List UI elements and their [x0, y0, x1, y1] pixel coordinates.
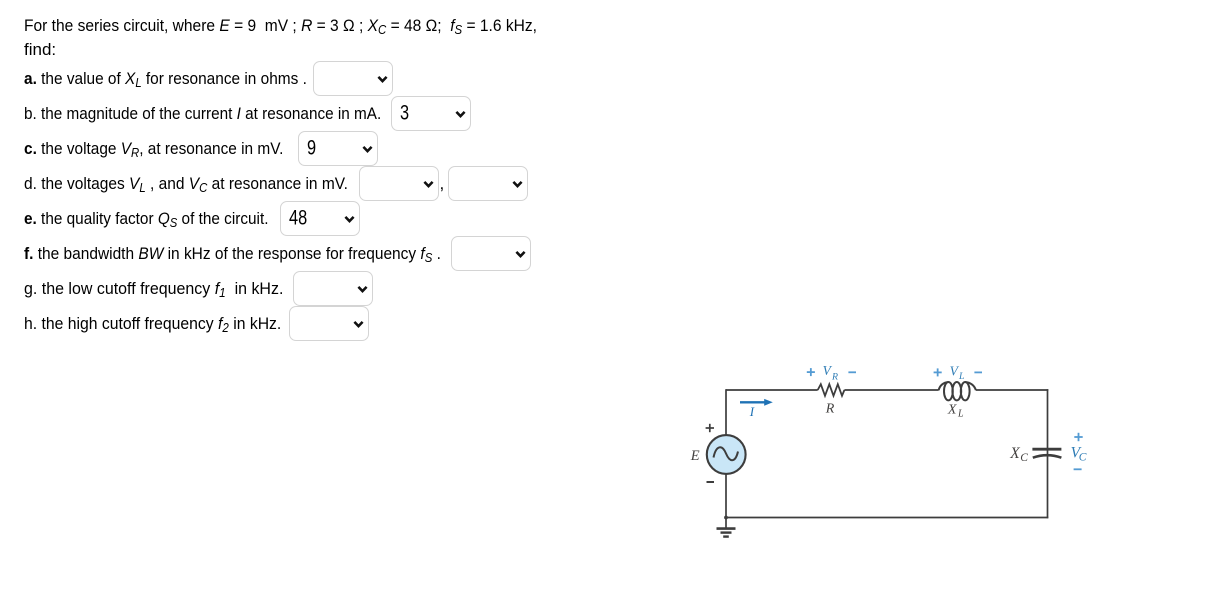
- item b text: [24, 104, 381, 124]
- svg-text:R: R: [825, 401, 835, 416]
- dropdown d2: [448, 166, 528, 201]
- current arrow I: [740, 399, 773, 406]
- dropdown e value 48: [280, 201, 360, 236]
- label + VL - above inductor: [934, 364, 982, 382]
- source plus sign: [706, 424, 714, 432]
- item c text: [24, 139, 283, 159]
- dropdown b value 3: [391, 96, 471, 131]
- wire top-left horizontal: [726, 389, 818, 391]
- item e text: [24, 209, 268, 229]
- item a text: [24, 69, 307, 89]
- wire right vertical upper: [1047, 389, 1049, 453]
- wire left vertical upper: [725, 389, 727, 435]
- svg-text:R: R: [831, 371, 838, 382]
- svg-text:L: L: [958, 371, 964, 382]
- problem statement line 2: [24, 40, 56, 60]
- label VC minus sign: [1074, 468, 1082, 470]
- wire bottom horizontal: [726, 517, 1048, 519]
- label XC left of capacitor: [1009, 445, 1028, 464]
- source minus sign: [707, 481, 715, 483]
- source E sine wave: [714, 447, 739, 460]
- resistor R zigzag: [818, 384, 845, 396]
- junction node dot: [724, 516, 728, 520]
- item f text: [24, 244, 441, 264]
- capacitor XC curved bottom plate: [1033, 455, 1062, 458]
- capacitor XC top plate: [1032, 448, 1061, 451]
- label VC plus sign: [1074, 433, 1082, 441]
- label E: [690, 448, 700, 464]
- dropdown c value 9: [298, 131, 378, 166]
- item d text: [24, 174, 348, 194]
- wire between inductor and right corner: [976, 389, 1048, 391]
- label I: [749, 404, 755, 419]
- svg-text:L: L: [957, 408, 964, 419]
- wire between resistor and inductor: [844, 389, 938, 391]
- ground symbol: [717, 518, 736, 537]
- svg-text:X: X: [1009, 445, 1020, 462]
- wire right vertical lower: [1047, 453, 1049, 518]
- svg-text:E: E: [690, 448, 700, 464]
- svg-text:X: X: [947, 403, 957, 418]
- label VC: [1071, 444, 1087, 463]
- inductor XL coil: [939, 382, 976, 400]
- label R below resistor: [825, 401, 835, 416]
- dropdown a: [313, 61, 393, 96]
- svg-text:I: I: [749, 404, 755, 419]
- item g text: [24, 279, 283, 299]
- dropdown h: [289, 306, 369, 341]
- dropdown f: [451, 236, 531, 271]
- item h text: [24, 314, 281, 334]
- comma between item d selects: [440, 174, 445, 194]
- svg-text:C: C: [1020, 452, 1028, 464]
- source E circle: [707, 435, 746, 474]
- dropdown d1: [359, 166, 439, 201]
- svg-text:C: C: [1079, 451, 1087, 463]
- dropdown g: [293, 271, 373, 306]
- problem statement line 1: [24, 16, 537, 36]
- label + VR - above resistor: [807, 363, 856, 382]
- label XL below inductor: [947, 403, 964, 420]
- wire left vertical lower: [725, 474, 727, 518]
